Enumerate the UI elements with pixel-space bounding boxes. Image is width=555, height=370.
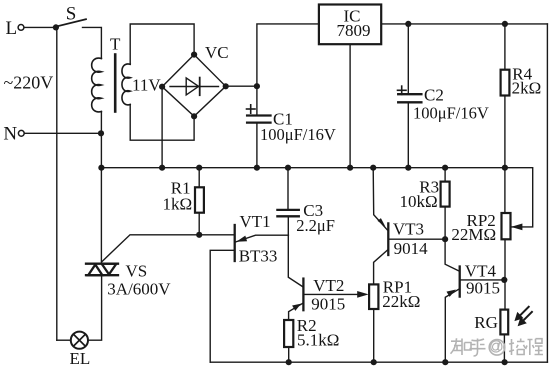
node C2 top bbox=[405, 21, 411, 27]
triac VS bbox=[86, 264, 118, 276]
svg-text:T: T bbox=[110, 35, 121, 54]
svg-text:RG: RG bbox=[474, 313, 498, 332]
switch S blade bbox=[58, 19, 87, 26]
svg-text:100μF/16V: 100μF/16V bbox=[260, 125, 336, 144]
resistor R3 bbox=[444, 168, 446, 182]
node IC ground on bus bbox=[347, 165, 353, 171]
svg-text:C2: C2 bbox=[424, 85, 444, 104]
svg-text:VC: VC bbox=[205, 43, 229, 62]
wire IC ground pin to bus bbox=[349, 44, 351, 168]
RG light arrow 1 bbox=[514, 307, 528, 321]
transformer T core bbox=[114, 55, 117, 112]
VT4 base wire to RP2/RG node bbox=[461, 279, 505, 281]
svg-text:EL: EL bbox=[70, 349, 91, 368]
wire bridge right to C1 node bbox=[226, 85, 257, 87]
VT2 base wire to RP1 wiper bbox=[304, 293, 360, 295]
wire L to switch bbox=[24, 26, 56, 28]
wire secondary bottom to bridge bottom bbox=[130, 105, 194, 141]
VT2 emitter arrowhead bbox=[292, 304, 301, 311]
RP1 wiper arrowhead bbox=[357, 291, 368, 298]
capacitor C3 bbox=[287, 168, 289, 209]
wire N to junction bbox=[25, 132, 102, 134]
right rail wire down bbox=[546, 24, 548, 362]
VT1 base1 wire down to bottom rail bbox=[210, 250, 233, 362]
svg-text:100μF/16V: 100μF/16V bbox=[413, 104, 489, 123]
resistor R1 bbox=[198, 168, 200, 188]
wire VS bottom to lamp bbox=[88, 276, 102, 340]
node VT4 base junction bbox=[501, 277, 507, 283]
svg-text:10kΩ: 10kΩ bbox=[400, 192, 438, 211]
wire IC output top rail bbox=[381, 23, 547, 25]
VT3 collector wire to RP1 bbox=[374, 250, 388, 284]
VT1 emitter wire bbox=[236, 235, 289, 242]
svg-text:22kΩ: 22kΩ bbox=[382, 292, 420, 311]
wire secondary top to bridge top bbox=[130, 24, 194, 64]
ground bus wire bbox=[101, 167, 505, 169]
svg-text:L: L bbox=[6, 18, 18, 39]
potentiometer RP1 bbox=[369, 284, 378, 309]
bottom rail wire bbox=[210, 361, 547, 363]
node RP1 bottom on rail bbox=[371, 359, 377, 365]
svg-text:VS: VS bbox=[126, 261, 148, 280]
node R4 top bbox=[502, 21, 508, 27]
capacitor C1 bbox=[256, 86, 258, 114]
transistor VT2 bar bbox=[302, 279, 304, 311]
watermark zhihu bbox=[451, 338, 544, 356]
svg-text:9015: 9015 bbox=[466, 279, 500, 298]
node bridge right bbox=[223, 83, 229, 89]
wire bridge left to ground bus bbox=[161, 87, 163, 168]
resistor R4 bbox=[504, 24, 506, 70]
svg-text:VT2: VT2 bbox=[313, 276, 344, 295]
wire primary bottom to N junction bbox=[100, 112, 102, 134]
wire R1 junction to VT1 base2 bbox=[199, 234, 233, 236]
bridge rectifier VC diamond bbox=[162, 55, 226, 117]
svg-text:3A/600V: 3A/600V bbox=[107, 279, 171, 298]
VT2 emitter wire bbox=[289, 303, 303, 320]
node R1 bottom junction bbox=[196, 232, 202, 238]
svg-text:1kΩ: 1kΩ bbox=[163, 195, 193, 214]
node bridge left on bus bbox=[159, 165, 165, 171]
wire C1 node up to IC input bbox=[257, 24, 319, 86]
wire C3 bottom to VT2 collector bbox=[288, 217, 302, 286]
svg-text:2.2μF: 2.2μF bbox=[296, 216, 335, 235]
terminal N bbox=[18, 130, 24, 136]
resistor R2 bbox=[284, 320, 293, 347]
node N rail on bus bbox=[98, 165, 104, 171]
C1 plus sign bbox=[247, 108, 256, 110]
node R1 top on bus bbox=[196, 165, 202, 171]
svg-text:22MΩ: 22MΩ bbox=[451, 225, 496, 244]
potentiometer RP2 bbox=[504, 168, 506, 213]
node R3 top on bus bbox=[442, 165, 448, 171]
C2 plus sign bbox=[398, 89, 407, 91]
VT4 emitter wire bbox=[445, 289, 459, 362]
wire bus to RP2 wiper bbox=[505, 168, 533, 227]
node R4 bottom on bus bbox=[502, 165, 508, 171]
VT1 emitter arrowhead bbox=[236, 236, 247, 242]
svg-text:11V: 11V bbox=[132, 76, 161, 95]
transformer T secondary winding bbox=[122, 64, 130, 105]
node bridge left bbox=[159, 84, 165, 90]
node C2 on bus bbox=[405, 165, 411, 171]
svg-text:5.1kΩ: 5.1kΩ bbox=[297, 331, 339, 350]
node C1 on bus bbox=[254, 165, 260, 171]
wire N junction down to VS bbox=[100, 133, 102, 262]
photoresistor RG bbox=[500, 310, 508, 335]
wire lamp to left rail bbox=[57, 339, 71, 341]
svg-text:VT3: VT3 bbox=[393, 220, 424, 239]
transistor VT4 bar bbox=[459, 267, 461, 297]
node N junction bbox=[98, 130, 104, 136]
node C3 top on bus bbox=[285, 165, 291, 171]
node R2 on bottom rail bbox=[286, 359, 292, 365]
node VT4 emitter on rail bbox=[442, 359, 448, 365]
svg-text:N: N bbox=[3, 123, 17, 144]
VT3 emitter wire bbox=[373, 168, 387, 230]
svg-text:S: S bbox=[66, 4, 77, 25]
RP2 wiper arrowhead bbox=[511, 224, 522, 231]
svg-text:VT1: VT1 bbox=[240, 212, 271, 231]
lamp EL bbox=[71, 332, 88, 349]
svg-text:7809: 7809 bbox=[337, 21, 371, 40]
diode inside bridge bbox=[170, 86, 219, 88]
svg-text:~220V: ~220V bbox=[4, 73, 54, 93]
node R3 bottom junction bbox=[442, 236, 448, 242]
node RG bottom on rail bbox=[502, 359, 508, 365]
VT4 collector wire bbox=[445, 239, 459, 271]
transformer T primary winding bbox=[92, 58, 102, 112]
transistor VT3 bar bbox=[387, 223, 389, 255]
node L junction bbox=[53, 24, 59, 30]
left rail wire (L side down to lamp) bbox=[56, 27, 58, 340]
svg-text:2kΩ: 2kΩ bbox=[512, 78, 542, 97]
VT3 base wire to R3 node bbox=[389, 238, 445, 240]
node bridge top bbox=[191, 52, 197, 58]
svg-text:9015: 9015 bbox=[311, 294, 345, 313]
VT3 emitter arrowhead bbox=[378, 218, 386, 226]
wire switch to primary top bbox=[83, 27, 102, 58]
node C1 top junction bbox=[254, 83, 260, 89]
capacitor C2 bbox=[407, 24, 409, 93]
node bridge bottom bbox=[191, 113, 197, 119]
RG light arrow 2 bbox=[518, 312, 532, 326]
transistor VT1 bar bbox=[234, 225, 236, 261]
regulator IC 7809 box bbox=[319, 5, 381, 45]
terminal L bbox=[18, 25, 24, 31]
VS gate wire bbox=[102, 235, 196, 262]
node VT3 emitter top on bus bbox=[370, 165, 376, 171]
svg-text:BT33: BT33 bbox=[239, 246, 278, 265]
VT4 emitter arrowhead bbox=[447, 290, 456, 297]
svg-text:9014: 9014 bbox=[394, 239, 429, 258]
